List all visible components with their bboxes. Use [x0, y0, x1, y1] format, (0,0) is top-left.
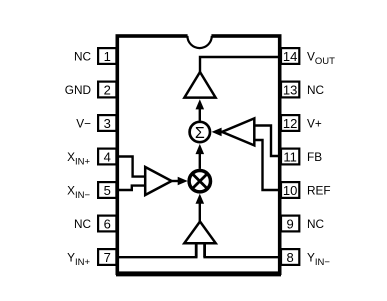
svg-text:1: 1 [104, 49, 111, 64]
svg-text:5: 5 [104, 183, 111, 198]
wire multiplier to sum with arrowhead [196, 144, 205, 169]
svg-text:REF: REF [307, 183, 331, 197]
IC body U1 package outline [116, 36, 281, 275]
pin 6 box [98, 216, 116, 232]
wire A2 to sum with arrowhead [212, 128, 223, 137]
pin 7 box [98, 249, 116, 265]
pin 8 box [281, 249, 299, 265]
svg-text:V−: V− [76, 116, 91, 130]
pin 1 box [98, 48, 116, 64]
svg-text:Σ: Σ [195, 125, 205, 142]
svg-text:FB: FB [307, 150, 322, 164]
svg-text:V+: V+ [307, 116, 322, 130]
wire A3 to multiplier with arrowhead [172, 177, 188, 186]
wire YIN- pin8 to A4 right leg [203, 256, 280, 258]
pin 5 box [98, 182, 116, 198]
svg-text:3: 3 [104, 116, 111, 131]
svg-text:9: 9 [286, 216, 293, 231]
pin 14 box [281, 48, 299, 64]
svg-text:NC: NC [307, 83, 325, 97]
wire A4 to multiplier with arrowhead [196, 194, 205, 223]
svg-text:4: 4 [104, 149, 111, 164]
pin 10 box [281, 182, 299, 198]
wire VOUT: output buffer tip to pin 14 [200, 57, 280, 73]
svg-text:6: 6 [104, 216, 111, 231]
wire FB pin11 to A2 upper input [254, 126, 280, 157]
op-amp A4 Y-input buffer (bottom triangle) [184, 222, 215, 244]
svg-text:2: 2 [104, 82, 111, 97]
svg-text:10: 10 [283, 183, 297, 198]
svg-text:8: 8 [286, 250, 293, 265]
wire YIN+ pin7 to A4 left leg [118, 256, 198, 258]
svg-text:12: 12 [283, 116, 297, 131]
multiplier X circle [189, 171, 210, 192]
svg-text:NC: NC [307, 217, 325, 231]
op-amp A1 output buffer (top triangle) [184, 72, 215, 98]
wire XIN- pin5 to A3 lower input [118, 186, 145, 190]
A4 input legs [196, 243, 204, 257]
pin 2 box [98, 82, 116, 98]
svg-text:GND: GND [65, 83, 91, 97]
pin 9 box [281, 216, 299, 232]
op-amp A2 feedback buffer (left-pointing triangle) [222, 118, 254, 145]
pin 3 box [98, 115, 116, 131]
wire XIN+ pin4 to A3 upper input [118, 157, 145, 177]
svg-text:NC: NC [74, 49, 92, 63]
svg-text:7: 7 [104, 250, 111, 265]
pin-1 index notch [187, 33, 211, 48]
svg-text:NC: NC [74, 217, 92, 231]
pin 13 box [281, 82, 299, 98]
summing junction SIGMA [190, 122, 210, 142]
op-amp A3 X-input buffer (right-pointing triangle) [145, 167, 171, 195]
pin 11 box [281, 149, 299, 165]
wire REF pin10 to A2 lower input [254, 140, 280, 190]
svg-text:14: 14 [283, 49, 297, 64]
svg-text:11: 11 [283, 149, 297, 164]
wire sum to buffer with arrowhead [196, 99, 205, 121]
pin 12 box [281, 115, 299, 131]
pin 4 box [98, 149, 116, 165]
svg-text:13: 13 [283, 82, 297, 97]
